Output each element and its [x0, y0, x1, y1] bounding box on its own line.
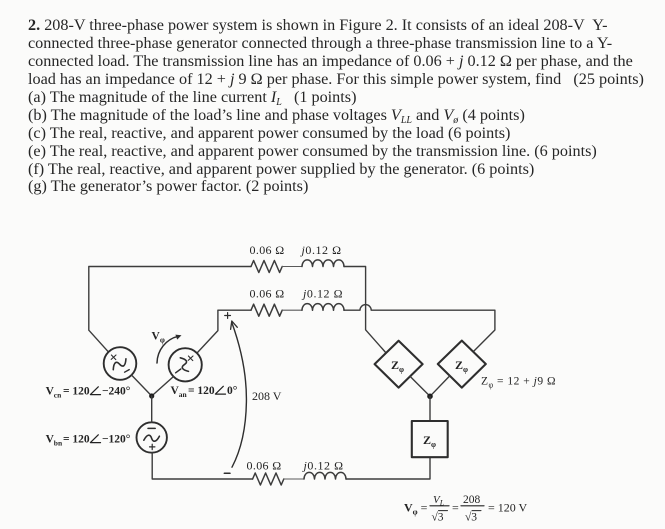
svg-text:√3: √3	[465, 511, 477, 524]
V_an plus mark	[188, 356, 193, 361]
svg-text:=: =	[452, 501, 459, 515]
svg-text:208 V: 208 V	[252, 389, 282, 403]
wire V_an to neutral node	[152, 377, 174, 396]
svg-text:j0.12 Ω: j0.12 Ω	[301, 287, 343, 301]
svg-text:Zφ: Zφ	[455, 358, 468, 374]
inductor L-top j0.12 ohm	[302, 260, 344, 267]
svg-text:an: an	[179, 390, 188, 399]
V_bn minus mark	[148, 427, 155, 429]
svg-text:bn: bn	[54, 439, 63, 448]
load diamond Z left	[375, 341, 423, 388]
svg-text:Vφ =: Vφ =	[404, 501, 428, 517]
svg-text:208: 208	[463, 494, 481, 506]
resistor R-top 0.06 ohm	[251, 261, 282, 273]
208V arc arrow	[232, 323, 247, 468]
source V_bn circle	[137, 422, 167, 452]
V_bn sine squiggle	[144, 435, 160, 441]
wire top-left: from left diagonal up and across top	[89, 267, 251, 352]
V_an sine squiggle	[180, 357, 189, 373]
wire bottom rail to load box	[346, 457, 430, 479]
svg-text:√3: √3	[432, 511, 444, 524]
wire V_cn to neutral node	[132, 375, 152, 396]
V_cn minus mark	[125, 370, 130, 373]
V_cn sine squiggle	[111, 358, 128, 370]
svg-text:0°: 0°	[227, 385, 238, 397]
svg-text:cn: cn	[54, 391, 62, 400]
svg-text:Zφ: Zφ	[391, 358, 404, 374]
wire top-right down to left diamond	[344, 267, 386, 353]
load node dot	[427, 394, 433, 400]
wire between R and L bottom	[284, 478, 304, 480]
source V_an circle	[169, 348, 202, 381]
wire node to V_bn	[151, 396, 153, 422]
wire between R and L mid	[282, 309, 302, 311]
load box Z bottom	[412, 421, 448, 457]
svg-text:Zφ: Zφ	[423, 433, 436, 449]
svg-text:−240°: −240°	[102, 386, 131, 398]
source V_cn circle	[104, 347, 137, 380]
svg-text:0.06 Ω: 0.06 Ω	[250, 243, 285, 257]
V_phi arrowhead	[175, 335, 181, 340]
label V_an = 120 angle 0	[171, 385, 238, 399]
svg-text:−120°: −120°	[102, 434, 131, 446]
svg-text:= 120: = 120	[188, 385, 215, 397]
load diamond Z right	[438, 341, 486, 388]
wire right diamond to load node	[430, 376, 450, 396]
label V_bn = 120 angle -120	[46, 434, 131, 448]
label V_cn = 120 angle -240	[46, 386, 131, 400]
neutral node dot	[149, 393, 154, 398]
svg-text:Zφ = 12 + j9 Ω: Zφ = 12 + j9 Ω	[481, 376, 556, 390]
svg-text:0.06 Ω: 0.06 Ω	[247, 459, 282, 473]
wire mid from source V_an up to corner	[198, 310, 252, 352]
svg-text:= 120: = 120	[63, 386, 90, 398]
svg-text:Vφ: Vφ	[152, 331, 165, 345]
resistor R-bot 0.06 ohm	[253, 473, 284, 485]
wire mid right with hop over vertical, to right diamond	[344, 305, 495, 352]
svg-text:= 120: = 120	[63, 434, 90, 446]
V_bn plus mark	[150, 444, 155, 449]
svg-text:j0.12 Ω: j0.12 Ω	[302, 459, 344, 473]
wire left diamond to load node	[410, 376, 430, 396]
208V arrowhead	[231, 321, 238, 329]
svg-text:0.06 Ω: 0.06 Ω	[250, 287, 285, 301]
wire load node down to box	[429, 396, 431, 421]
svg-text:j0.12 Ω: j0.12 Ω	[300, 243, 342, 257]
inductor L-bot j0.12 ohm	[304, 472, 346, 479]
V_phi reference arrow arc	[157, 336, 178, 363]
V_cn plus mark	[111, 355, 116, 360]
V_an minus mark	[176, 369, 181, 373]
minus sign 208V	[224, 472, 230, 474]
svg-text:= 120 V: = 120 V	[488, 501, 528, 515]
inductor L-mid j0.12 ohm	[302, 304, 344, 311]
resistor R-mid 0.06 ohm	[251, 304, 282, 316]
wire between R and L top	[282, 266, 302, 268]
plus sign 208V	[225, 313, 231, 319]
wire V_bn down to bottom rail	[152, 453, 252, 479]
